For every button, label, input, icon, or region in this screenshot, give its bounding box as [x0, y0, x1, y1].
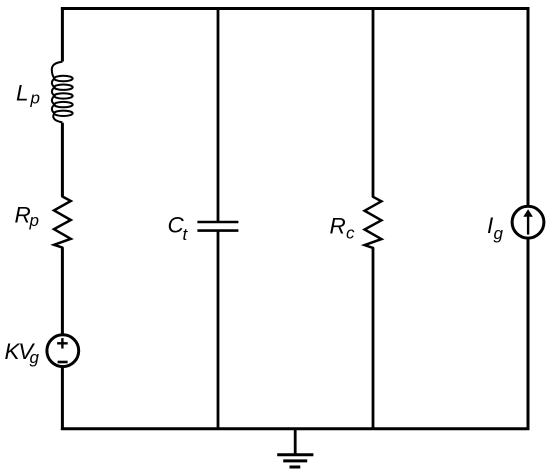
svg-text:p: p — [30, 89, 40, 108]
inductor L_p coil — [52, 62, 73, 123]
wire right branch top — [527, 7, 530, 206]
wire capacitor branch bottom — [217, 231, 220, 430]
svg-text:R: R — [330, 214, 346, 239]
svg-text:I: I — [487, 213, 493, 238]
ground stem — [294, 429, 297, 455]
wire R_c branch top — [372, 9, 375, 197]
svg-text:g: g — [494, 224, 504, 243]
ground bar 1 — [277, 453, 313, 456]
resistor R_p zigzag — [54, 197, 71, 248]
wire bottom rail — [61, 427, 529, 430]
wire top rail — [61, 7, 529, 10]
svg-text:p: p — [29, 211, 39, 230]
current source arrow — [527, 216, 529, 235]
wire left branch: R_p to source — [61, 248, 64, 335]
svg-text:c: c — [346, 224, 355, 243]
resistor R_c zigzag — [365, 197, 382, 248]
svg-text:L: L — [16, 81, 29, 106]
wire R_c branch bottom — [372, 248, 375, 430]
wire left branch: coil to R_p — [61, 123, 64, 197]
voltage source KV_g — [47, 335, 79, 367]
wire left branch: source to bottom rail — [61, 367, 64, 430]
wire left branch top segment — [61, 7, 64, 62]
ground bar 3 — [290, 466, 301, 469]
current source I_g — [512, 206, 544, 238]
svg-text:g: g — [30, 348, 40, 367]
ground bar 2 — [283, 459, 307, 462]
wire right branch bottom — [527, 238, 530, 430]
wire capacitor branch top — [217, 9, 220, 223]
svg-text:R: R — [15, 203, 31, 228]
capacitor C_t plates — [197, 222, 238, 231]
